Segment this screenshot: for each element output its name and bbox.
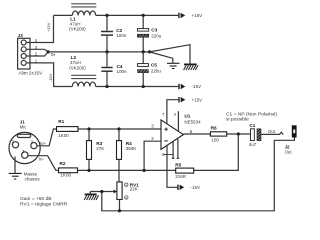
svg-text:chassis: chassis bbox=[25, 176, 41, 181]
L2 core bars bbox=[71, 74, 96, 76]
connector J3 body bbox=[18, 38, 30, 69]
svg-text:220u: 220u bbox=[151, 33, 162, 38]
node rail-C5 dot bbox=[142, 85, 145, 88]
svg-text:0v: 0v bbox=[51, 52, 57, 57]
inductor L2 bbox=[72, 82, 95, 86]
wire 0v to chassis ground bbox=[150, 45, 191, 64]
svg-text:In-: In- bbox=[39, 156, 45, 161]
wire 0v rail bbox=[48, 51, 149, 53]
wire J3 pin3 to 0v node bbox=[26, 49, 48, 52]
svg-text:(VK200): (VK200) bbox=[69, 27, 86, 32]
svg-text:R1: R1 bbox=[58, 119, 64, 124]
J3 pin circles bbox=[21, 40, 26, 65]
power flag +15V top bbox=[178, 13, 185, 18]
wire J3 pin1 to -15V dropper bbox=[26, 63, 72, 87]
node feedback corner dot bbox=[143, 169, 146, 172]
connector J1 XLR body bbox=[9, 132, 40, 163]
node 0v-ground dot bbox=[148, 50, 151, 53]
svg-text:NE5534: NE5534 bbox=[184, 119, 201, 124]
svg-text:1K00: 1K00 bbox=[61, 173, 72, 178]
op-amp U1 bbox=[161, 120, 183, 149]
capacitor C3 (polarized) bbox=[142, 15, 144, 28]
pin 8 stub bbox=[177, 111, 179, 131]
node rail-C2 dot bbox=[105, 14, 108, 17]
svg-text:R5: R5 bbox=[175, 162, 181, 167]
node rail-C4 dot bbox=[105, 85, 108, 88]
capacitor C5 (polarized) bbox=[142, 52, 144, 64]
masse ground symbol bbox=[9, 173, 22, 179]
inductor L1 bbox=[72, 11, 95, 15]
node 0v-C2C4 dot bbox=[105, 50, 108, 53]
resistor R5 bbox=[176, 168, 194, 173]
resistor R1 bbox=[57, 127, 79, 132]
wire pin4 to -15V flag bbox=[167, 145, 177, 188]
connector J2 body bbox=[292, 125, 297, 137]
svg-text:RV1 = réglage CMRR: RV1 = réglage CMRR bbox=[20, 202, 68, 208]
power flag -15V opamp bbox=[177, 185, 184, 190]
svg-text:-15V: -15V bbox=[48, 73, 53, 82]
trimmer RV1 bbox=[117, 182, 122, 200]
svg-text:C1: C1 bbox=[249, 123, 255, 128]
svg-text:L2: L2 bbox=[71, 55, 77, 60]
wire C1 to jack tip bbox=[261, 133, 280, 135]
wire 0v to signal ground bbox=[150, 52, 173, 63]
J1 pin 3 bbox=[22, 152, 28, 158]
svg-text:+15V: +15V bbox=[192, 97, 203, 102]
svg-text:100n: 100n bbox=[116, 33, 127, 38]
wire J1 shield to masse bbox=[14, 157, 16, 174]
svg-text:-15V: -15V bbox=[191, 185, 201, 190]
J1 pin 2 bbox=[31, 143, 37, 149]
node R4 top dot bbox=[117, 127, 120, 130]
svg-text:4u7: 4u7 bbox=[249, 142, 257, 147]
svg-text:3: 3 bbox=[151, 124, 154, 129]
svg-text:316R: 316R bbox=[175, 174, 187, 179]
power flag -15V psu bbox=[178, 84, 185, 89]
svg-text:47uH: 47uH bbox=[70, 60, 81, 65]
node wiper dot bbox=[100, 190, 103, 193]
RV1 wiper bbox=[90, 191, 113, 193]
svg-text:(VK200): (VK200) bbox=[69, 65, 86, 70]
svg-text:J3: J3 bbox=[18, 33, 24, 38]
wire feedback down bbox=[194, 134, 239, 170]
wire In+ bbox=[37, 129, 57, 146]
node rail-C3 dot bbox=[142, 14, 145, 17]
svg-text:Gain = +50 dB: Gain = +50 dB bbox=[20, 196, 52, 202]
svg-text:C3: C3 bbox=[151, 27, 157, 32]
comp cap plates bbox=[172, 157, 175, 159]
resistor R4 bbox=[118, 129, 120, 141]
svg-text:6: 6 bbox=[190, 129, 193, 134]
svg-text:8: 8 bbox=[174, 113, 176, 117]
wire op-amp minus branch bbox=[144, 141, 161, 170]
node 0v-C3C5 dot bbox=[142, 50, 145, 53]
wire J2 sleeve return bbox=[102, 138, 295, 211]
resistor R2 bbox=[59, 168, 78, 173]
signal ground symbol bbox=[167, 63, 180, 68]
wire pin7 to +15V flag bbox=[167, 100, 178, 124]
wire R6 to C1 bbox=[227, 133, 251, 135]
svg-text:R6: R6 bbox=[211, 125, 217, 130]
capacitor C2 bbox=[106, 15, 108, 30]
svg-text:Out: Out bbox=[285, 150, 293, 155]
svg-text:Out: Out bbox=[268, 129, 276, 134]
svg-text:1K00: 1K00 bbox=[58, 133, 69, 138]
node 0v junction dot bbox=[47, 50, 50, 53]
node RV1 bottom dot bbox=[118, 209, 121, 212]
svg-text:U1: U1 bbox=[184, 114, 190, 119]
svg-text:Alim 2x15V: Alim 2x15V bbox=[19, 71, 44, 76]
svg-text:-15V: -15V bbox=[192, 84, 202, 89]
svg-text:360K: 360K bbox=[126, 146, 137, 151]
wire J3 pin2 to 0v node bbox=[26, 52, 48, 56]
chassis ground RV1 bbox=[85, 193, 97, 195]
capacitor C4 bbox=[106, 52, 108, 67]
power flag +15V opamp bbox=[178, 97, 185, 102]
comp cap stubs bbox=[172, 142, 174, 158]
svg-text:22K: 22K bbox=[130, 186, 138, 191]
node R3 bottom dot bbox=[87, 169, 90, 172]
svg-text:7: 7 bbox=[162, 112, 165, 117]
wire in- line bbox=[78, 169, 176, 171]
wire +15V rail top bbox=[96, 14, 179, 16]
node R3 top dot bbox=[87, 127, 90, 130]
svg-text:si possible: si possible bbox=[226, 116, 249, 122]
resistor R6 bbox=[210, 132, 226, 136]
svg-text:100n: 100n bbox=[117, 69, 128, 74]
wire -15V rail bbox=[96, 86, 179, 88]
RV1 pin marks bbox=[125, 183, 128, 186]
svg-text:2: 2 bbox=[151, 136, 154, 141]
chassis ground symbol bbox=[184, 63, 197, 65]
svg-text:+15V: +15V bbox=[192, 13, 203, 18]
svg-text:100: 100 bbox=[211, 138, 219, 143]
wire J3 pin4 to +15V riser bbox=[26, 15, 53, 42]
svg-text:Mic: Mic bbox=[20, 125, 28, 130]
svg-text:220u: 220u bbox=[151, 68, 162, 73]
J1 pin 1 bbox=[12, 142, 18, 148]
wire in+ line bbox=[78, 128, 161, 130]
comp cap wire bbox=[164, 154, 173, 156]
wire output pin6 bbox=[183, 133, 210, 135]
jack tip contact bbox=[279, 132, 283, 134]
svg-text:In+: In+ bbox=[40, 141, 47, 146]
capacitor C1 bbox=[251, 129, 255, 141]
wire wiper to chassis ground bbox=[89, 192, 91, 194]
J1 slot bbox=[17, 134, 30, 137]
wire In- bbox=[28, 156, 59, 171]
node R6-R5 dot bbox=[237, 132, 240, 135]
L1 core bars bbox=[71, 3, 96, 5]
wire riser top to L1 bbox=[54, 14, 73, 16]
svg-text:C5: C5 bbox=[151, 62, 157, 67]
resistor R3 bbox=[88, 129, 90, 141]
svg-text:R2: R2 bbox=[60, 161, 66, 166]
svg-text:+15V: +15V bbox=[46, 22, 51, 32]
J3 pin numbers bbox=[35, 38, 38, 63]
svg-text:27K: 27K bbox=[96, 146, 104, 151]
